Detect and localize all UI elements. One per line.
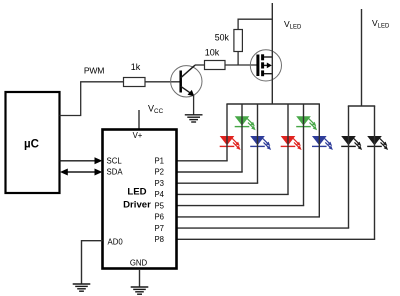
resistor 10k (205, 48, 226, 70)
microcontroller U1 (µC) box (6, 92, 60, 193)
wire P1 to D1 (177, 160, 228, 162)
ground (AD0) (73, 284, 91, 291)
svg-text:LED: LED (127, 187, 146, 198)
LED D3 (blue) (250, 136, 271, 150)
svg-text:P3: P3 (154, 179, 164, 188)
wire 1k to Q1 base (145, 81, 180, 83)
wire 50k bottom to gate node (237, 52, 239, 66)
resistor 50k (215, 30, 243, 52)
LED driver U2 box (103, 130, 177, 269)
wire PWM from µC to 1k resistor (60, 82, 124, 116)
LED D5 (green) (296, 116, 317, 130)
node white-LED anode bus (348, 105, 375, 107)
svg-text:P6: P6 (154, 213, 164, 222)
wire SCL with arrow (60, 157, 103, 164)
wire LED D2 cathode column (241, 104, 243, 172)
wire P6 to D6 (177, 216, 321, 218)
wire VLED rail 2 (361, 9, 363, 106)
wire LED D7 cathode column (348, 106, 350, 228)
wire LED D5 cathode column (303, 104, 305, 206)
wire 10k to Q2 gate (225, 64, 257, 66)
svg-text:V+: V+ (133, 131, 143, 140)
wire VCC to V+ pin (138, 110, 140, 130)
wire VLED rail 1 (drain/source vertical) (271, 3, 273, 104)
transistor Q1 (NPN) (171, 65, 202, 97)
wire LED D4 cathode column (287, 104, 289, 194)
wire Q1 collector to 10k (195, 64, 205, 66)
svg-text:P2: P2 (154, 168, 164, 177)
wire P8 to D8 (177, 238, 376, 240)
svg-text:µC: µC (24, 138, 39, 150)
svg-text:Driver: Driver (123, 200, 151, 211)
wire LED D1 cathode column (226, 104, 228, 161)
svg-text:P1: P1 (154, 157, 164, 166)
wire AD0 to ground (82, 241, 103, 284)
wire LED D3 cathode column (257, 104, 259, 183)
svg-text:AD0: AD0 (108, 238, 124, 247)
ground (Q1 emitter) (185, 115, 203, 122)
wire P2 to D2 (177, 171, 243, 173)
svg-text:P7: P7 (154, 224, 164, 233)
svg-text:GND: GND (130, 259, 148, 268)
LED D1 (red) (220, 136, 241, 150)
resistor 1k (124, 62, 146, 87)
wire LED D8 cathode column (374, 106, 376, 239)
wire SDA with double arrow (60, 169, 102, 176)
wire 50k top to VLED rail (238, 19, 272, 29)
svg-text:PWM: PWM (84, 66, 104, 76)
LED D2 (green) (235, 116, 256, 130)
LED D7 (white/black symbol) (341, 136, 362, 150)
wire GND pin to ground (139, 269, 141, 287)
svg-text:P4: P4 (154, 190, 164, 199)
wire P4 to D4 (177, 193, 289, 195)
svg-text:50k: 50k (215, 33, 230, 43)
wire LED D6 cathode column (318, 104, 320, 217)
wire P3 to D3 (177, 182, 259, 184)
node RGB anode bus (226, 103, 320, 105)
wire Q1 emitter to ground (193, 95, 195, 115)
ground (driver GND) (131, 287, 149, 294)
LED D8 (white/black symbol) (367, 136, 388, 150)
svg-text:1k: 1k (131, 62, 141, 72)
svg-text:SCL: SCL (107, 157, 123, 166)
LED D6 (blue) (312, 136, 333, 150)
wire P5 to D5 (177, 205, 305, 207)
svg-text:P5: P5 (154, 201, 164, 210)
svg-text:10k: 10k (205, 48, 220, 58)
svg-text:P8: P8 (154, 235, 164, 244)
svg-text:SDA: SDA (107, 168, 124, 177)
transistor Q2 (P-MOSFET) (250, 50, 281, 81)
LED D4 (red) (281, 136, 302, 150)
wire P7 to D7 (177, 227, 350, 229)
